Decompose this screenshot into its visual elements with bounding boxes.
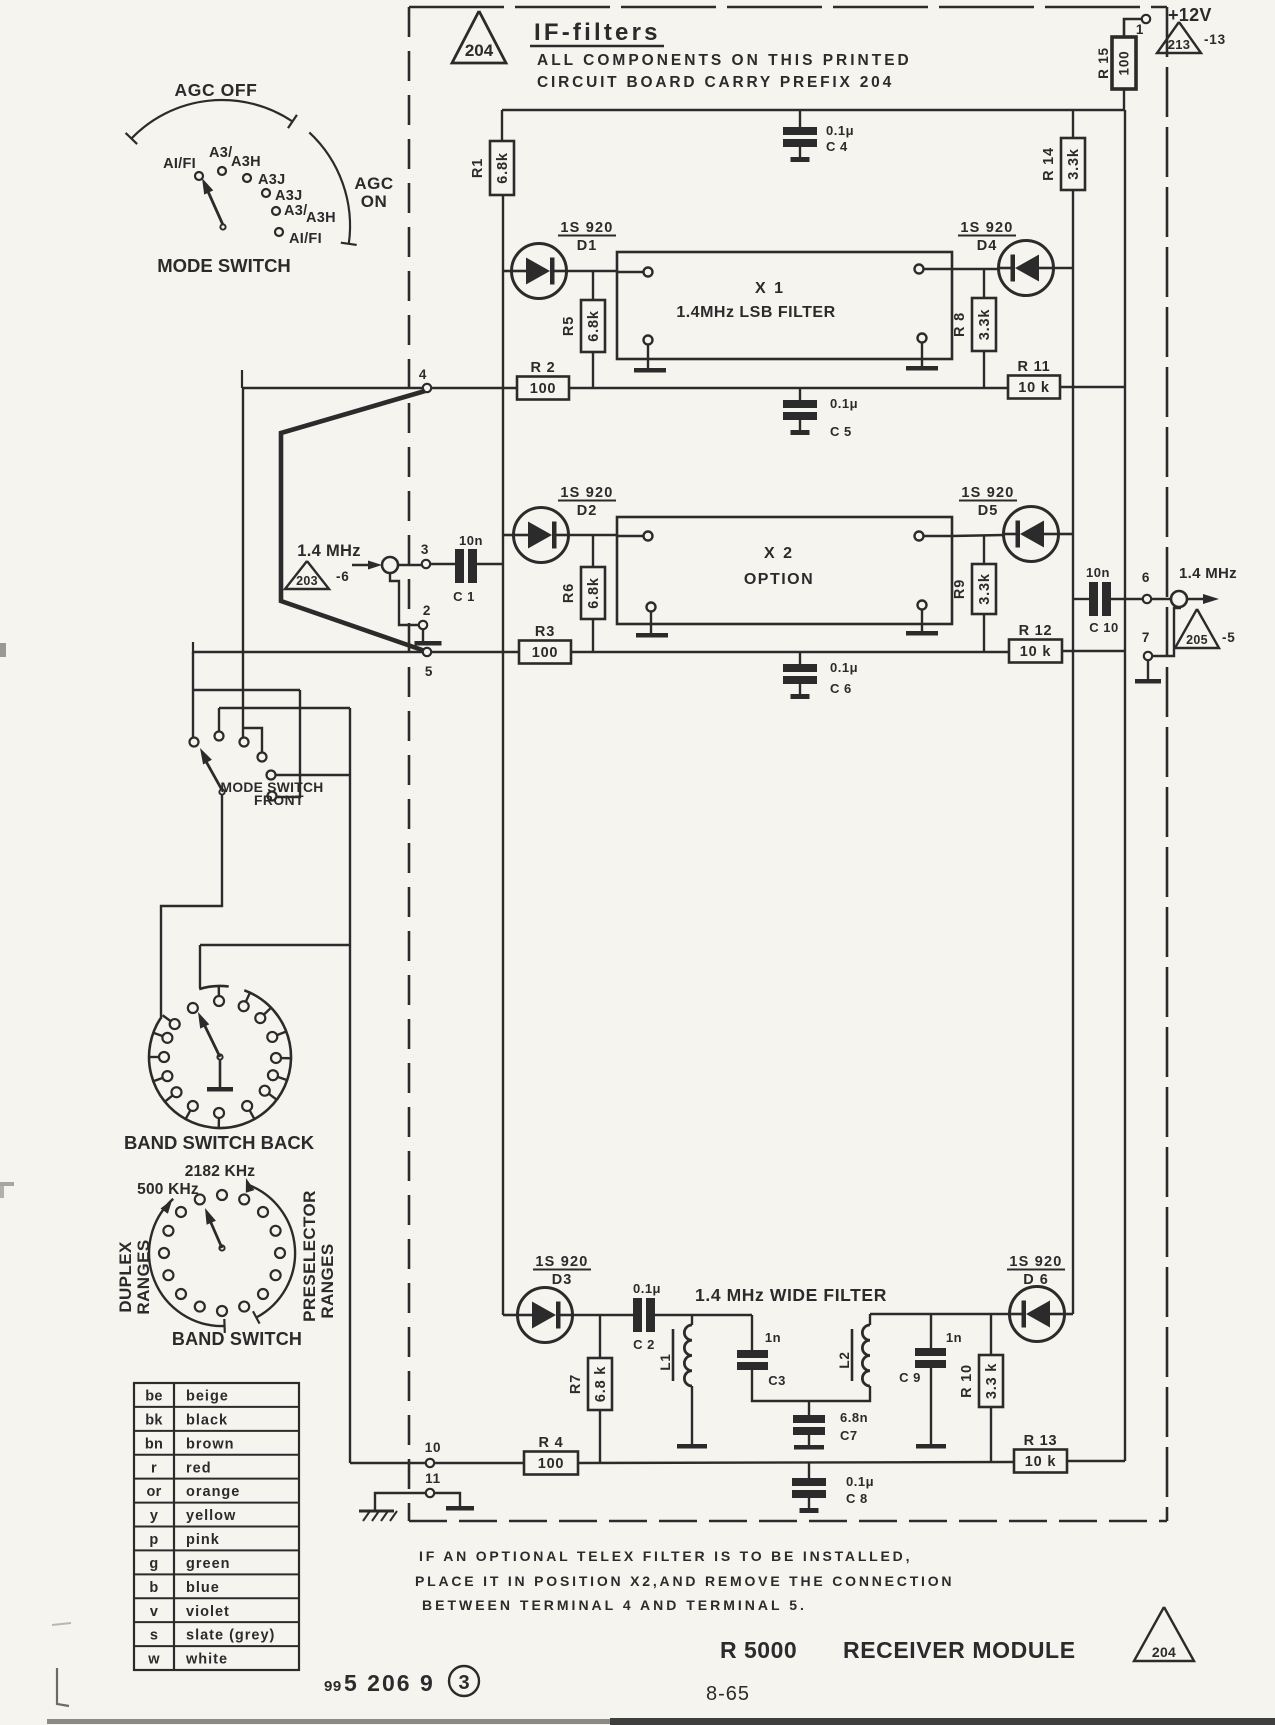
svg-text:red: red — [186, 1460, 212, 1476]
svg-text:bn: bn — [145, 1436, 163, 1452]
svg-text:3: 3 — [458, 1672, 469, 1694]
svg-text:white: white — [185, 1652, 228, 1668]
svg-text:or: or — [146, 1484, 161, 1500]
svg-text:pink: pink — [186, 1532, 220, 1548]
svg-text:MODE SWITCH: MODE SWITCH — [157, 255, 291, 276]
svg-text:ALL COMPONENTS ON THIS PRINTED: ALL COMPONENTS ON THIS PRINTED — [537, 52, 912, 69]
svg-text:b: b — [149, 1580, 158, 1596]
svg-text:10 k: 10 k — [1025, 1454, 1057, 1470]
svg-text:10 k: 10 k — [1020, 644, 1052, 660]
svg-text:R 2: R 2 — [531, 360, 556, 376]
svg-text:0.1μ: 0.1μ — [830, 396, 858, 411]
svg-text:10: 10 — [425, 1440, 442, 1455]
svg-text:R 4: R 4 — [539, 1435, 564, 1451]
svg-text:5 206 9: 5 206 9 — [344, 1670, 435, 1696]
svg-text:3.3k: 3.3k — [977, 573, 993, 605]
svg-text:3.3k: 3.3k — [977, 309, 993, 341]
svg-text:6.8 k: 6.8 k — [593, 1366, 609, 1402]
svg-text:violet: violet — [186, 1604, 230, 1620]
svg-text:1n: 1n — [946, 1330, 962, 1345]
svg-text:slate (grey): slate (grey) — [186, 1628, 275, 1644]
svg-text:8-65: 8-65 — [706, 1683, 750, 1705]
svg-text:green: green — [186, 1556, 231, 1572]
svg-text:11: 11 — [425, 1471, 441, 1486]
svg-text:v: v — [150, 1604, 158, 1620]
svg-text:R 11: R 11 — [1017, 359, 1050, 375]
svg-text:100: 100 — [532, 645, 559, 661]
svg-text:X 1: X 1 — [755, 280, 785, 297]
svg-text:1.4 MHz: 1.4 MHz — [297, 542, 361, 560]
svg-text:D1: D1 — [577, 238, 598, 254]
svg-text:R6: R6 — [561, 583, 577, 603]
svg-text:PLACE IT IN POSITION X2,AND: PLACE IT IN POSITION X2,AND REMOVE THE C… — [415, 1573, 954, 1589]
svg-text:500 KHz: 500 KHz — [137, 1181, 199, 1198]
svg-text:p: p — [149, 1532, 158, 1548]
svg-text:X 2: X 2 — [764, 545, 794, 562]
svg-text:FRONT: FRONT — [254, 793, 304, 808]
svg-text:10n: 10n — [459, 533, 483, 548]
svg-text:A3H: A3H — [231, 154, 261, 170]
svg-text:100: 100 — [538, 1456, 565, 1472]
svg-text:beige: beige — [186, 1389, 229, 1405]
svg-text:A3J: A3J — [275, 188, 303, 204]
svg-text:C 9: C 9 — [899, 1370, 921, 1385]
svg-text:PRESELECTOR: PRESELECTOR — [300, 1190, 319, 1322]
svg-text:ON: ON — [361, 192, 388, 211]
svg-text:R 13: R 13 — [1024, 1433, 1058, 1449]
svg-text:100: 100 — [530, 381, 557, 397]
svg-text:3.3 k: 3.3 k — [984, 1363, 1000, 1399]
svg-text:C3: C3 — [768, 1373, 786, 1388]
svg-text:0.1μ: 0.1μ — [846, 1474, 874, 1489]
svg-text:C7: C7 — [840, 1428, 858, 1443]
svg-text:D4: D4 — [977, 238, 998, 254]
svg-text:RECEIVER MODULE: RECEIVER MODULE — [843, 1637, 1076, 1663]
svg-text:6.8k: 6.8k — [495, 152, 511, 184]
svg-text:1S 920: 1S 920 — [560, 485, 613, 501]
svg-text:R5: R5 — [561, 316, 577, 336]
svg-text:AGC: AGC — [354, 174, 393, 193]
svg-text:-6: -6 — [336, 569, 350, 584]
svg-text:r: r — [151, 1460, 157, 1476]
svg-text:CIRCUIT BOARD CARRY PREFIX 204: CIRCUIT BOARD CARRY PREFIX 204 — [537, 74, 894, 91]
svg-text:R9: R9 — [952, 579, 968, 599]
svg-text:BAND SWITCH BACK: BAND SWITCH BACK — [124, 1132, 315, 1153]
svg-text:bk: bk — [145, 1412, 163, 1428]
svg-text:g: g — [149, 1556, 158, 1572]
svg-text:204: 204 — [1152, 1644, 1176, 1660]
svg-text:yellow: yellow — [186, 1508, 236, 1524]
svg-text:RANGES: RANGES — [318, 1243, 337, 1318]
svg-text:OPTION: OPTION — [744, 571, 814, 588]
svg-text:6.8n: 6.8n — [840, 1410, 868, 1425]
svg-text:1S 920: 1S 920 — [560, 220, 613, 236]
svg-text:1S 920: 1S 920 — [960, 220, 1013, 236]
svg-text:D3: D3 — [552, 1272, 573, 1288]
svg-text:C 5: C 5 — [830, 424, 852, 439]
svg-text:204: 204 — [465, 41, 494, 60]
svg-text:1: 1 — [1136, 22, 1144, 37]
svg-text:0.1μ: 0.1μ — [633, 1281, 661, 1296]
svg-text:100: 100 — [1117, 51, 1132, 76]
svg-text:+12V: +12V — [1168, 5, 1212, 25]
svg-text:y: y — [150, 1508, 158, 1524]
svg-text:IF-filters: IF-filters — [534, 19, 661, 46]
svg-text:D5: D5 — [978, 503, 999, 519]
svg-text:6.8k: 6.8k — [586, 577, 602, 609]
svg-text:blue: blue — [186, 1580, 220, 1596]
svg-text:C 8: C 8 — [846, 1491, 868, 1506]
svg-text:3.3k: 3.3k — [1066, 148, 1082, 180]
svg-text:R3: R3 — [535, 624, 555, 640]
svg-text:205: 205 — [1186, 633, 1208, 647]
svg-text:C 6: C 6 — [830, 681, 852, 696]
svg-text:w: w — [147, 1652, 160, 1668]
svg-text:4: 4 — [419, 367, 427, 382]
svg-text:R 12: R 12 — [1019, 623, 1053, 639]
svg-text:be: be — [145, 1389, 163, 1405]
svg-text:1n: 1n — [765, 1330, 781, 1345]
svg-text:3: 3 — [421, 542, 429, 557]
svg-text:AI/FI: AI/FI — [289, 231, 322, 247]
svg-text:-5: -5 — [1222, 630, 1236, 645]
svg-text:D2: D2 — [577, 503, 598, 519]
svg-text:AI/FI: AI/FI — [163, 156, 196, 172]
svg-text:BAND SWITCH: BAND SWITCH — [172, 1329, 302, 1349]
svg-text:10n: 10n — [1086, 565, 1110, 580]
svg-text:A3H: A3H — [306, 210, 336, 226]
svg-text:99: 99 — [324, 1678, 342, 1695]
svg-text:R7: R7 — [568, 1374, 584, 1394]
svg-text:A3/: A3/ — [284, 203, 307, 219]
svg-text:0.1μ: 0.1μ — [830, 660, 858, 675]
svg-text:7: 7 — [1142, 630, 1150, 645]
svg-text:R 5000: R 5000 — [720, 1637, 797, 1663]
svg-text:brown: brown — [186, 1436, 235, 1452]
svg-text:RANGES: RANGES — [134, 1239, 153, 1314]
svg-text:C 1: C 1 — [453, 589, 475, 604]
svg-text:black: black — [186, 1412, 228, 1428]
svg-text:R1: R1 — [470, 158, 486, 178]
svg-text:213: 213 — [1168, 37, 1191, 52]
svg-text:2182 KHz: 2182 KHz — [185, 1163, 256, 1180]
svg-text:A3/: A3/ — [209, 145, 232, 161]
svg-text:1S 920: 1S 920 — [1009, 1254, 1062, 1270]
svg-text:R 8: R 8 — [952, 312, 968, 337]
svg-text:A3J: A3J — [258, 172, 286, 188]
svg-text:6: 6 — [1142, 570, 1150, 585]
svg-text:1S 920: 1S 920 — [961, 485, 1014, 501]
svg-text:R 14: R 14 — [1041, 147, 1057, 181]
svg-text:203: 203 — [296, 574, 318, 588]
svg-text:R 10: R 10 — [959, 1364, 975, 1398]
svg-text:C 2: C 2 — [633, 1337, 655, 1352]
svg-text:L2: L2 — [837, 1351, 852, 1368]
svg-text:1.4 MHz: 1.4 MHz — [1179, 565, 1237, 582]
svg-text:orange: orange — [186, 1484, 240, 1500]
svg-text:5: 5 — [425, 664, 433, 679]
svg-text:AGC OFF: AGC OFF — [175, 80, 258, 100]
svg-text:R 15: R 15 — [1096, 47, 1111, 79]
svg-text:6.8k: 6.8k — [586, 310, 602, 342]
svg-text:-13: -13 — [1204, 32, 1226, 47]
svg-text:10 k: 10 k — [1018, 380, 1050, 396]
svg-text:DUPLEX: DUPLEX — [116, 1241, 135, 1313]
svg-text:C 10: C 10 — [1089, 620, 1118, 635]
svg-text:IF AN OPTIONAL TELEX FILTER: IF AN OPTIONAL TELEX FILTER IS TO BE INS… — [419, 1548, 912, 1564]
svg-text:s: s — [150, 1628, 158, 1644]
svg-text:L1: L1 — [658, 1353, 673, 1370]
svg-text:C 4: C 4 — [826, 139, 848, 154]
svg-text:2: 2 — [423, 603, 431, 618]
svg-text:1.4MHz LSB FILTER: 1.4MHz LSB FILTER — [676, 304, 835, 321]
svg-text:BETWEEN TERMINAL 4 AND TERM: BETWEEN TERMINAL 4 AND TERMINAL 5. — [422, 1597, 807, 1613]
svg-text:0.1μ: 0.1μ — [826, 123, 854, 138]
svg-text:1.4 MHz WIDE FILTER: 1.4 MHz WIDE FILTER — [695, 1285, 887, 1305]
svg-text:1S 920: 1S 920 — [535, 1254, 588, 1270]
